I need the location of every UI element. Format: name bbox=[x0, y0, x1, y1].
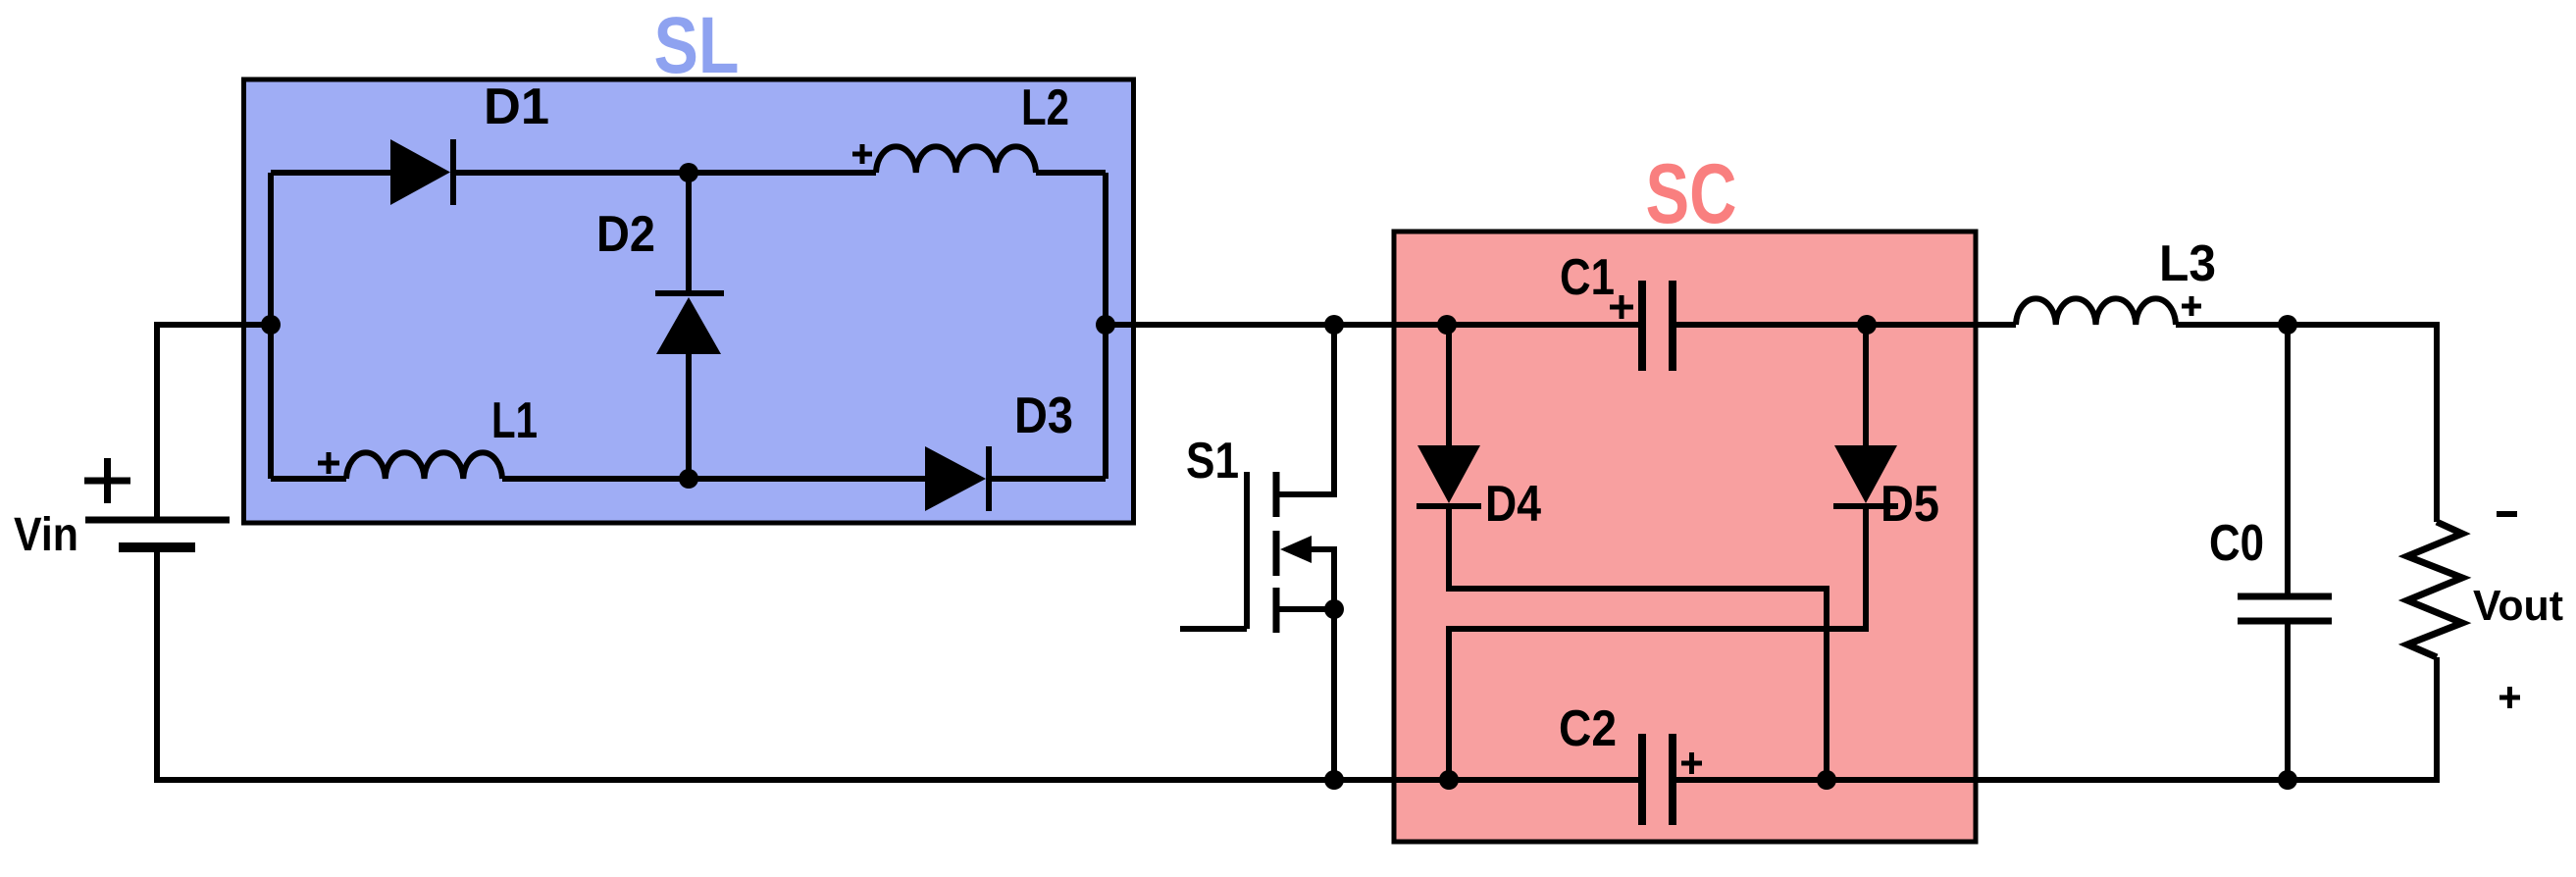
resistor Vout zigzag bbox=[2407, 522, 2462, 657]
diode D5 cathode bar bbox=[1833, 503, 1898, 509]
junction dot: S1 source node bbox=[1324, 599, 1344, 619]
SC block box bbox=[1394, 232, 1976, 842]
svg-text:L1: L1 bbox=[491, 392, 538, 449]
transistor S1 channel segments bbox=[1273, 472, 1280, 633]
svg-text:L2: L2 bbox=[1021, 79, 1069, 136]
diode D4 anode lead bbox=[1446, 325, 1452, 445]
diode D5 triangle bbox=[1834, 445, 1897, 503]
junction dot: S1 source on bottom rail bbox=[1324, 770, 1344, 790]
transistor S1 source lead bbox=[1276, 609, 1334, 783]
diode D5 anode lead bbox=[1863, 325, 1869, 445]
L2 plus sign bbox=[852, 144, 872, 164]
diode D2 anode lead bbox=[686, 173, 692, 293]
wire: SL bottom left segment bbox=[271, 476, 346, 482]
capacitor C2 right plate bbox=[1669, 734, 1676, 825]
diode D1 triangle bbox=[390, 139, 450, 205]
svg-text:SL: SL bbox=[654, 1, 740, 90]
junction dot: C0 bottom node bbox=[2278, 770, 2297, 790]
junction dot: C1 left node bbox=[1437, 315, 1457, 335]
wire: SL right vertical bbox=[1103, 173, 1108, 479]
svg-text:D3: D3 bbox=[1014, 387, 1073, 444]
transistor S1 body arrow bbox=[1305, 549, 1334, 609]
capacitor C0 top plate bbox=[2238, 593, 2332, 600]
junction dot: node A input bbox=[261, 315, 281, 335]
SL block box bbox=[244, 79, 1134, 523]
svg-text:Vout: Vout bbox=[2473, 582, 2563, 630]
svg-text:Vin: Vin bbox=[14, 509, 78, 561]
svg-text:D2: D2 bbox=[596, 206, 655, 263]
C1 plus sign bbox=[1610, 295, 1633, 319]
wire: bottom rail right of C2 bbox=[1673, 777, 2437, 783]
diode D4 cathode bar bbox=[1417, 503, 1481, 509]
diode D2 bottom lead bbox=[686, 354, 692, 479]
battery Vin long plate bbox=[85, 517, 230, 524]
L1 plus sign bbox=[318, 452, 339, 474]
capacitor C2 left plate bbox=[1638, 734, 1646, 825]
L3 plus sign bbox=[2182, 296, 2201, 316]
diode D3 cathode bar bbox=[986, 446, 992, 511]
inductor L2 bbox=[876, 146, 1036, 173]
junction dot: D2 top node bbox=[679, 163, 698, 182]
wire: D4 cathode to bottom rail right of C2 bbox=[1449, 506, 1827, 783]
battery Vin plus sign bbox=[84, 458, 130, 503]
Vout plus sign bbox=[2499, 687, 2520, 708]
svg-text:L3: L3 bbox=[2159, 235, 2216, 292]
junction dot: D2 bottom node bbox=[679, 469, 698, 489]
wire: Vin top lead bbox=[154, 322, 160, 520]
transistor S1 drain lead bbox=[1276, 325, 1334, 494]
wire: L1 to D2 bottom node bbox=[502, 476, 925, 482]
wire: main top rail, SL output to C1 bbox=[1106, 322, 1642, 328]
C2 plus sign bbox=[1681, 752, 1702, 774]
svg-text:S1: S1 bbox=[1186, 433, 1239, 490]
junction dot: D4 return on bottom rail bbox=[1817, 770, 1836, 790]
svg-text:SC: SC bbox=[1646, 147, 1737, 241]
battery Vin short plate bbox=[119, 542, 195, 552]
capacitor C0 bottom lead bbox=[2285, 621, 2291, 780]
junction dot: S1 drain node bbox=[1324, 315, 1344, 335]
svg-text:D4: D4 bbox=[1485, 476, 1541, 533]
wire: D5 cathode to bottom rail left of C2 bbox=[1449, 506, 1866, 783]
diode D4 triangle bbox=[1417, 445, 1480, 503]
svg-text:D1: D1 bbox=[484, 78, 549, 135]
junction dot: C0 top node bbox=[2278, 315, 2297, 335]
wire: D3 to SL right vertical bbox=[989, 476, 1106, 482]
svg-text:C2: C2 bbox=[1559, 700, 1617, 757]
wire: Vin bottom lead bbox=[154, 547, 160, 783]
svg-text:D5: D5 bbox=[1880, 476, 1939, 533]
wire: SL top rail left segment bbox=[271, 170, 392, 176]
inductor L3 bbox=[2016, 298, 2176, 325]
diode D2 cathode bar bbox=[655, 290, 724, 296]
capacitor C0 bottom plate bbox=[2238, 618, 2332, 625]
wire: L3 to Vout corner bbox=[2176, 322, 2437, 328]
junction dot: C1 right node bbox=[1857, 315, 1877, 335]
capacitor C1 right plate bbox=[1669, 281, 1676, 371]
capacitor C0 top lead bbox=[2285, 325, 2291, 596]
wire: bottom rail left of C2 bbox=[157, 777, 1642, 783]
wire: Vout bottom lead bbox=[2434, 657, 2440, 783]
wire: L2 to SL right corner bbox=[1036, 170, 1106, 176]
wire: SL left vertical bbox=[268, 173, 274, 479]
wire: Vout top lead bbox=[2434, 322, 2440, 522]
svg-text:C1: C1 bbox=[1560, 249, 1615, 306]
diode D3 triangle bbox=[925, 446, 986, 511]
Vout minus sign bbox=[2497, 511, 2517, 517]
transistor S1 gate bar bbox=[1244, 472, 1250, 629]
junction dot: SL output node bbox=[1096, 315, 1115, 335]
wire: D1 to D2 node bbox=[453, 170, 876, 176]
capacitor C1 left plate bbox=[1638, 281, 1646, 371]
diode D2 triangle bbox=[656, 297, 721, 354]
wire: C1 right plate to SC right bbox=[1673, 322, 2016, 328]
svg-text:C0: C0 bbox=[2209, 515, 2264, 572]
wire: Vin positive lead to node A bbox=[157, 322, 271, 328]
transistor S1 gate lead bbox=[1180, 626, 1247, 632]
inductor L1 bbox=[346, 452, 502, 479]
junction dot: D5 return on bottom rail bbox=[1439, 770, 1459, 790]
diode D1 cathode bar bbox=[450, 139, 456, 205]
